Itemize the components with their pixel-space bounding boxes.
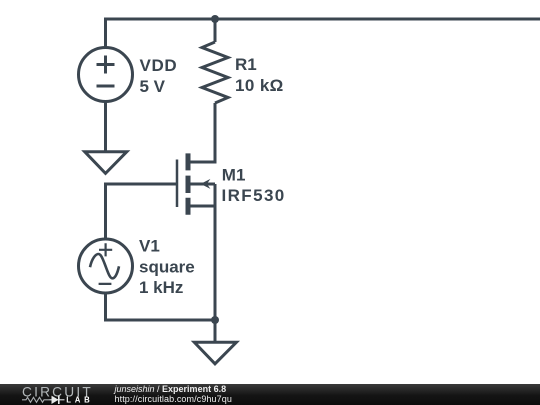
wire top from VDD to right edge	[106, 19, 540, 47]
node junction dot bottom	[211, 316, 219, 324]
svg-text:1 kHz: 1 kHz	[139, 278, 183, 297]
node junction dot top	[211, 15, 219, 23]
transistor M1 gate bar	[176, 160, 179, 208]
resistor R1	[202, 42, 228, 103]
voltage source VDD	[79, 48, 133, 102]
ground (bottom)	[194, 342, 236, 364]
svg-text:VDD: VDD	[140, 56, 178, 75]
svg-text:10 kΩ: 10 kΩ	[235, 76, 284, 95]
transistor M1 channel bars	[186, 153, 191, 214]
wire junction to ground	[214, 320, 217, 342]
svg-text:R1: R1	[235, 55, 257, 74]
wire M1 drain tap	[189, 161, 215, 164]
wire M1 right vertical to bottom junction	[214, 184, 217, 320]
svg-text:M1: M1	[222, 165, 246, 184]
svg-text:square: square	[139, 257, 195, 276]
svg-text:5 V: 5 V	[140, 77, 166, 96]
svg-text:LAB: LAB	[66, 396, 93, 405]
logo diode	[50, 399, 65, 401]
wire V1 bottom to junction	[106, 293, 216, 320]
svg-text:http://circuitlab.com/c9hu7qu: http://circuitlab.com/c9hu7qu	[115, 394, 232, 404]
wire gate from V1	[106, 184, 178, 239]
svg-text:junseishin / Experiment 6.8: junseishin / Experiment 6.8	[114, 384, 227, 394]
wire R1 bottom to drain	[190, 103, 215, 162]
wire M1 source tap	[189, 205, 215, 208]
V1 plus/minus	[99, 243, 113, 284]
wire VDD to ground	[104, 102, 107, 152]
logo resistor	[22, 397, 50, 402]
svg-text:IRF530: IRF530	[222, 186, 286, 205]
wire M1 body tap	[190, 183, 215, 186]
V1 sine wave	[90, 254, 119, 278]
ground (VDD)	[85, 152, 127, 174]
svg-text:V1: V1	[139, 237, 160, 256]
wire R1 top lead	[214, 19, 217, 42]
transistor M1 arrow	[201, 179, 211, 189]
voltage source V1	[79, 239, 133, 293]
